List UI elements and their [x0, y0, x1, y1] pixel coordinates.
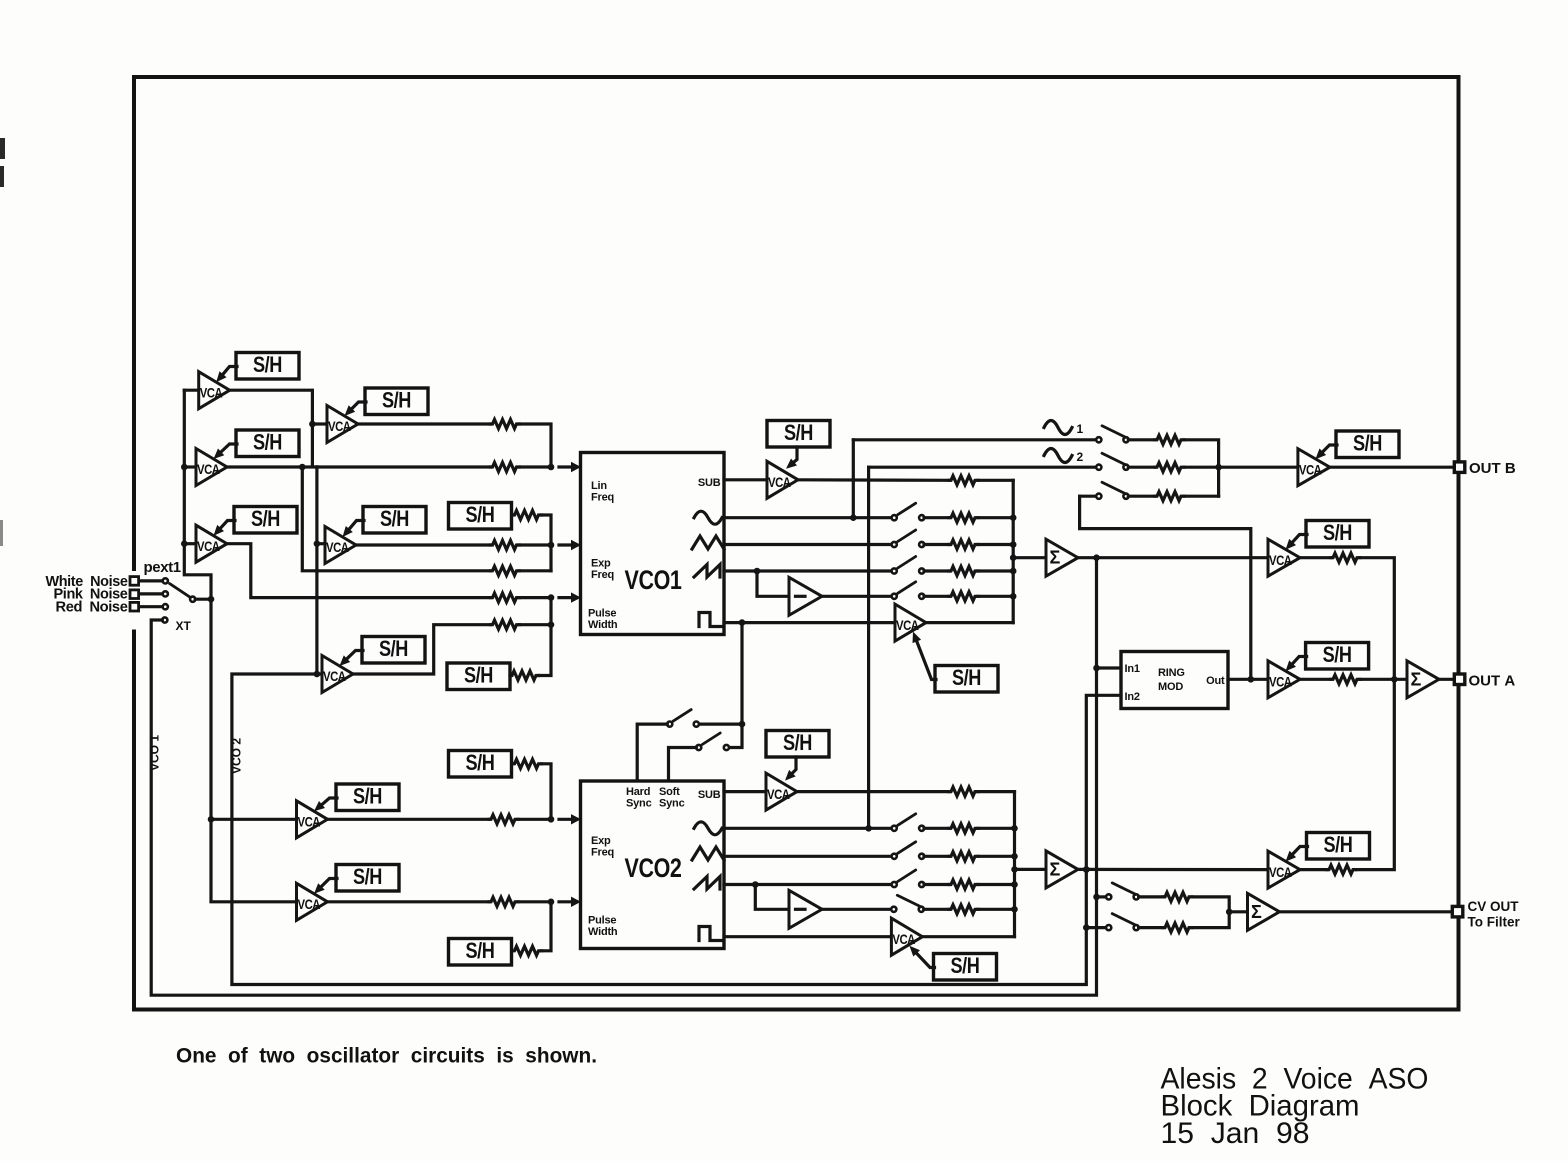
junction mix2 row / In2 column [1083, 866, 1090, 873]
resistor R11 [949, 540, 978, 549]
svg-text:S/H: S/H [464, 663, 493, 688]
svg-text:Width: Width [588, 926, 618, 938]
VCA U2 (noise) [196, 449, 227, 486]
svg-text:Freq: Freq [591, 492, 614, 504]
svg-text:Exp: Exp [591, 835, 611, 847]
wire U11 to R14 [1300, 556, 1331, 559]
S/H box S10 (for U9) [935, 665, 998, 692]
stub noise bus to VCA U2 input [184, 465, 196, 468]
S/H box S15 (VCO2 exp aux) [449, 750, 512, 777]
switch CV row1 [1106, 883, 1139, 900]
svg-text:2: 2 [1077, 450, 1084, 464]
wire sine1 row [853, 438, 1096, 441]
wire switch to R13 [924, 595, 949, 598]
wire VCO2 triangle row [724, 855, 892, 858]
stub CV node to sigma U22 [1229, 910, 1247, 913]
svg-text:S/H: S/H [253, 352, 282, 377]
svg-text:VCA: VCA [767, 786, 790, 802]
junction mix row / In1 column [1093, 554, 1100, 561]
S/H box S13 (for U13) [1306, 642, 1369, 669]
svg-text:Exp: Exp [591, 558, 611, 570]
S/H box S18 (for U16) [766, 730, 829, 757]
scan edge marks [0, 138, 5, 546]
resistor R22 (after S17) [513, 946, 542, 955]
control arrow S13 to U13 [1286, 657, 1307, 672]
svg-text:In1: In1 [1125, 663, 1140, 675]
svg-text:VCA: VCA [1299, 461, 1322, 477]
wire R25 to collector [978, 855, 1015, 858]
wire switch to R27 [924, 908, 949, 911]
svg-text:VCA: VCA [323, 668, 346, 684]
S/H box S1 (for U1) [236, 352, 299, 379]
svg-text:VCA: VCA [768, 474, 791, 490]
svg-text:15 Jan 98: 15 Jan 98 [1161, 1117, 1310, 1150]
junction bus / VCO2 exp VCA row [208, 816, 215, 823]
summing amp U17 (OUT A) [1407, 661, 1439, 698]
selector common contact [190, 597, 195, 602]
svg-text:pext1: pext1 [144, 559, 181, 576]
junction pulse row / sync branch [739, 619, 746, 626]
VCA U11 (VCO1 mix level) [1268, 539, 1300, 576]
junction collector/saw [1010, 568, 1017, 575]
VCO1 pulse output symbol [699, 613, 721, 627]
sine 1 symbol [1044, 421, 1072, 435]
resistor R3 (exp freq row) [491, 541, 520, 550]
VCO2 triangle output symbol [692, 847, 724, 860]
RING MOD block [1121, 652, 1228, 709]
wire R27 to collector [978, 908, 1015, 911]
svg-text:Width: Width [588, 619, 618, 631]
riser sine row up to sine1 select row [852, 440, 855, 518]
control arrow S19 to U19 [909, 946, 934, 968]
wire U4 output to Lin node [358, 422, 491, 425]
wire R18 to sigma U17 [1360, 678, 1407, 681]
wire switch to R26 [924, 883, 949, 886]
S/H box S14 (for U14) [336, 784, 399, 811]
VCA U5 (col2 mid) [325, 527, 356, 564]
switch hard sync [667, 710, 699, 727]
VCA U13 (ring mod level) [1268, 661, 1300, 698]
control arrow S2 to U2 [214, 444, 238, 459]
switch triangle row (VCO2 bank) [892, 842, 925, 859]
svg-text:S/H: S/H [1353, 430, 1382, 455]
arrow into VCO1 Pulse Width [559, 592, 581, 602]
svg-text:OUT B: OUT B [1469, 460, 1516, 477]
wire R3 to Exp node [520, 543, 552, 546]
control arrow S3 to U3 [214, 521, 236, 536]
svg-text:CV OUT: CV OUT [1468, 899, 1520, 914]
arrow into VCO1 Lin Freq [559, 462, 581, 472]
wire R15 to OUT B collector [1184, 440, 1219, 496]
White Noise input terminal [130, 577, 139, 586]
wire switch to R24 [924, 827, 949, 830]
collector vertical (VCO1 bank) [1012, 480, 1015, 622]
S/H box S5 (for U5) [363, 506, 426, 533]
junction node U6 input / VCO2 net [314, 671, 321, 678]
control arrow S16 to U15 [314, 879, 337, 894]
control arrow S1 to U1 [216, 367, 237, 383]
resistor R16 [1155, 463, 1184, 472]
wire Red Noise to selector contact [140, 605, 163, 608]
S/H box S4 (for U4) [365, 387, 428, 414]
VCA U12 (OUT B level) [1298, 449, 1330, 486]
stub to VCA U6 input [317, 672, 322, 675]
resistor R30 [1163, 923, 1192, 932]
junction bus/U2 input [181, 464, 188, 471]
wire VCO2 SUB to VCA U16 [724, 790, 766, 793]
wire U12 to OUT B terminal [1330, 466, 1455, 469]
wire R22 up to pw node [542, 902, 552, 951]
junction collector/sine [1010, 514, 1017, 521]
svg-text:VCA: VCA [197, 461, 220, 477]
inverter U18 (VCO2 saw) [789, 890, 822, 928]
wire R11 to collector [978, 543, 1013, 546]
wire ring mod Out to VCA U13 [1228, 678, 1268, 681]
S/H box S3 (for U3) [234, 506, 297, 533]
outer border frame of schematic sheet [134, 77, 1459, 1010]
resistor R7 (PW aux row) [491, 620, 520, 629]
wire R6 to PW node [520, 596, 552, 599]
wire VCO1 saw row [724, 569, 892, 572]
S/H box S12 (for U11) [1306, 520, 1369, 547]
collector vertical (VCO2 bank) [1013, 792, 1016, 937]
wire switch to R12 [924, 569, 949, 572]
wire hard sync into VCO2 [637, 724, 667, 781]
stub collector to sigma U10 [1013, 556, 1046, 559]
S/H box S16 (for U15) [336, 864, 399, 891]
wire VCO2 pulse row to VCA U19 [724, 935, 891, 938]
stub noise bus to VCA U3 input [184, 542, 196, 545]
resistor R14 (after U11) [1331, 553, 1360, 562]
junction Exp Freq node [548, 542, 555, 549]
svg-text:VCA: VCA [1269, 674, 1292, 690]
stub noise bus to VCA U1 input [184, 389, 198, 392]
riser sine2 down to VCO2 sine row [867, 467, 870, 828]
selector arm pext1 (on White Noise) [170, 584, 191, 598]
svg-text:VCO 1: VCO 1 [148, 735, 162, 771]
wire sine2 row [869, 466, 1097, 469]
resistor R8 (after S8) [510, 671, 539, 680]
VCO1 sine output symbol [694, 511, 722, 524]
wire switch to R11 [924, 543, 949, 546]
svg-text:Sync: Sync [659, 798, 685, 810]
wire inverter U8 out row [822, 595, 892, 598]
junction In1 column / CV row1 [1093, 894, 1100, 901]
junction OUT A summing node [1391, 676, 1398, 683]
wire sigma U20 out to VCA U21 [1078, 868, 1268, 871]
junction In2 column / mix2 row [1083, 866, 1090, 873]
stub bus to VCA U14 input [211, 818, 297, 821]
svg-text:VCA: VCA [298, 896, 321, 912]
wire R13 to collector [978, 595, 1013, 598]
svg-text:VCA: VCA [1269, 552, 1292, 568]
noise bus vertical to VCA inputs and VCO2 exp VCAs [184, 390, 296, 902]
svg-text:SUB: SUB [698, 477, 721, 489]
S/H box S7 (for U6) [362, 636, 425, 663]
svg-text:OUT A: OUT A [1469, 672, 1516, 689]
wire U1 output down to Lin row [230, 390, 313, 467]
wire R9 to collector corner [978, 479, 1013, 482]
junction collector2/sine [1011, 825, 1018, 832]
wire U17 to OUT A terminal [1439, 678, 1454, 681]
arrow into VCO2 Pulse Width [559, 897, 581, 907]
summing amp U10 (VCO1 mix) [1046, 539, 1078, 576]
VCO2 saw output symbol [694, 877, 720, 890]
control arrow S7 to U6 [340, 651, 364, 667]
S/H box S9 (for U7) [767, 420, 830, 447]
switch ring mod to OUT B [1096, 482, 1128, 499]
junction collector/triangle [1010, 541, 1017, 548]
svg-text:S/H: S/H [353, 784, 382, 809]
svg-text:VCO1: VCO1 [625, 565, 682, 595]
wire R24 to collector [978, 827, 1015, 830]
resistor R1 (U4 row) [491, 420, 520, 429]
svg-text:VCA: VCA [896, 617, 919, 633]
resistor R4 (after S6) [513, 511, 542, 520]
VCA U21 (VCO2 mix level) [1268, 851, 1300, 888]
VCO1 saw output symbol [694, 565, 720, 578]
contact Red Noise [163, 604, 168, 609]
vertical tap Lin row down to U6 input node [315, 467, 318, 674]
VCA U4 (col2 top) [327, 406, 358, 443]
VCA U3 (noise) [196, 525, 227, 562]
svg-text:S/H: S/H [466, 750, 495, 775]
svg-text:SUB: SUB [698, 789, 721, 801]
wire switch to R15 [1128, 438, 1155, 441]
svg-text:XT: XT [176, 619, 192, 633]
switch saw row (VCO2 bank) [892, 870, 925, 887]
S/H box S6 (lin/exp aux) [449, 502, 512, 529]
wire VCO2 sine row [724, 827, 892, 830]
svg-text:Lin: Lin [591, 480, 607, 492]
Pink Noise input terminal [130, 590, 139, 599]
svg-text:In2: In2 [1125, 691, 1140, 703]
wire U14 out row [328, 818, 490, 821]
svg-text:RING: RING [1158, 667, 1185, 679]
svg-text:S/H: S/H [952, 665, 981, 690]
wire R20 down to exp node [542, 764, 552, 820]
svg-text:S/H: S/H [251, 506, 280, 531]
switch sine row (VCO2 bank) [892, 814, 925, 831]
wire U13 to R18 [1300, 678, 1331, 681]
wire VCO1 pulse row to VCA U9 [724, 621, 895, 624]
VCA U7 (VCO1 sub) [767, 461, 798, 498]
resistor R28 (after U21) [1327, 865, 1356, 874]
svg-text:S/H: S/H [466, 938, 495, 963]
resistor R19 (VCO2 exp row) [489, 815, 518, 824]
wire hard sync switch to tee [699, 722, 742, 725]
wire R5 up to Exp node [520, 569, 552, 572]
S/H box S2 (for U2) [236, 429, 299, 456]
CV OUT terminal [1452, 906, 1463, 917]
wire R10 to collector [978, 516, 1013, 519]
wire VCO1 triangle row [724, 543, 892, 546]
wire R8 up to PW aux node [539, 625, 551, 676]
stub to ring mod In1 [1097, 666, 1122, 669]
wire soft sync into VCO2 [669, 748, 697, 782]
wire CV row2 to switch [1086, 926, 1106, 929]
wire U9 output to collector bottom [926, 621, 1013, 624]
wire R30 to CV collector [1192, 912, 1229, 928]
junction tap / U5 input [314, 540, 321, 547]
arrow into VCO1 Exp Freq [559, 540, 581, 550]
resistor R15 [1155, 435, 1184, 444]
wire U15 out row [328, 900, 490, 903]
svg-text:One of two oscillator circ: One of two oscillator circuits is shown. [176, 1045, 597, 1068]
stub collector2 to sigma U20 [1015, 868, 1047, 871]
junction noise bus / selector [208, 596, 215, 603]
wire R17 to OUT B collector [1184, 495, 1219, 498]
wire U5 output row to Exp node [356, 543, 491, 546]
wire VCO1 SUB to VCA U7 [724, 478, 767, 481]
svg-text:Pulse: Pulse [588, 608, 616, 620]
svg-text:VCA: VCA [892, 931, 915, 947]
svg-text:VCA: VCA [326, 539, 349, 555]
switch sine row (VCO1 bank) [892, 503, 925, 520]
resistor R17 [1155, 492, 1184, 501]
svg-text:S/H: S/H [353, 864, 382, 889]
control arrow S12 to U11 [1286, 535, 1308, 550]
resistor R27 [949, 905, 978, 914]
junction saw row / inverter branch [754, 568, 761, 575]
svg-text:MOD: MOD [1158, 681, 1183, 693]
wire Pink Noise to selector contact [140, 592, 163, 595]
stub to VCA U5 input [317, 542, 325, 545]
svg-text:VCO2: VCO2 [625, 853, 682, 883]
wire R19 to exp node [518, 818, 551, 821]
resistor R5 (exp aux row) [491, 566, 520, 575]
wire R14 down to OUT A node [1360, 558, 1394, 680]
svg-text:S/H: S/H [379, 636, 408, 661]
wire U22 to CV OUT terminal [1280, 910, 1453, 913]
control arrow S4 to U4 [345, 402, 367, 416]
junction VCO2 PW node [548, 899, 555, 906]
summing amp U22 (CV OUT) [1248, 893, 1280, 930]
resistor R20 (after S15) [513, 759, 542, 768]
control arrow S14 to U14 [314, 798, 337, 811]
resistor R2 (lin freq row) [491, 463, 520, 472]
resistor R9 (sub row) [949, 476, 978, 485]
junction collector / sigma stub [1010, 554, 1017, 561]
S/H box S11 (for U12) [1336, 430, 1399, 457]
junction Out / OUT B tap [1248, 676, 1255, 683]
wire U7 output to bank [798, 478, 949, 482]
svg-text:Σ: Σ [1251, 902, 1262, 922]
switch inverted saw row (VCO2 bank) [891, 895, 924, 912]
switch inverted saw row (VCO1 bank) [892, 582, 925, 599]
VCA U9 (VCO1 pulse) [895, 604, 926, 641]
wire R2 to Lin node [520, 465, 552, 468]
VCA U19 (VCO2 pulse) [891, 918, 922, 955]
sine 2 symbol [1044, 449, 1072, 463]
wire U21 to R28 [1300, 868, 1327, 871]
wire switch to R17 [1128, 495, 1155, 498]
svg-text:VCA: VCA [197, 538, 220, 554]
switch sine2 [1096, 453, 1128, 470]
svg-text:S/H: S/H [380, 506, 409, 531]
switch saw row (VCO1 bank) [892, 557, 925, 574]
switch triangle row (VCO1 bank) [892, 530, 925, 547]
svg-text:VCA: VCA [200, 384, 223, 400]
svg-text:S/H: S/H [382, 387, 411, 412]
wire U6 output up to PW aux row [353, 625, 491, 674]
wire ring mod tap row [1080, 495, 1097, 498]
wire U19 output to collector bottom [922, 935, 1014, 938]
wire U2 output row to Lin Freq [227, 465, 491, 468]
resistor R24 [949, 824, 978, 833]
junction In2 column / CV row2 [1083, 924, 1090, 931]
svg-text:Pulse: Pulse [588, 915, 616, 927]
svg-text:Sync: Sync [626, 798, 652, 810]
svg-text:To Filter: To Filter [1468, 915, 1521, 930]
inverter U8 (VCO1 saw) [789, 577, 822, 615]
S/H box S19 (for U19) [934, 953, 997, 980]
contact Pink Noise [163, 591, 168, 596]
junction OUT B node [1215, 464, 1222, 471]
resistor R13 [949, 592, 978, 601]
svg-text:Freq: Freq [591, 847, 614, 859]
svg-text:Soft: Soft [659, 786, 680, 798]
svg-text:VCA: VCA [1269, 864, 1292, 880]
junction PW aux node [548, 621, 555, 628]
net VCO2: from U6 node down, along bottom, up to ring-mod In2 [232, 674, 1121, 985]
svg-text:S/H: S/H [253, 429, 282, 454]
VCA U15 (VCO2 pw) [297, 883, 328, 920]
wire VCO2 saw row [724, 883, 892, 886]
VCO1 oscillator block [581, 453, 725, 635]
wire switch to R29 [1139, 895, 1163, 898]
control arrow S18 to U16 [785, 757, 796, 781]
wire U16 output to bank [797, 790, 949, 793]
wire switch to R10 [924, 516, 949, 519]
contact XT [162, 617, 167, 622]
wire U3 output down to PW row [227, 544, 491, 598]
junction bus/U3 input [181, 540, 188, 547]
junction saw2 / inverter branch [752, 881, 759, 888]
OUT A terminal [1454, 674, 1465, 685]
resistor R10 [949, 513, 978, 522]
S/H box S17 (VCO2 pw aux) [449, 938, 512, 965]
S/H box S8 (PW aux) [447, 663, 510, 690]
VCA U14 (VCO2 exp) [297, 801, 328, 838]
wire selector common to noise bus [195, 598, 211, 601]
wire VCO1 sine row [724, 516, 892, 519]
switch soft sync [696, 733, 729, 750]
svg-text:S/H: S/H [1323, 642, 1352, 667]
svg-text:S/H: S/H [466, 502, 495, 527]
svg-text:VCA: VCA [328, 418, 351, 434]
wire R12 to collector [978, 569, 1013, 572]
wire R23 to collector corner [978, 790, 1015, 793]
riser PW aux to PW node [549, 598, 552, 625]
svg-text:Hard: Hard [626, 786, 650, 798]
junction collector/invsaw [1010, 593, 1017, 600]
wire OUT B node to VCA U12 [1219, 466, 1298, 469]
branch saw2 down to inverter U18 [755, 885, 789, 910]
wire R4 down to Exp node [542, 515, 552, 571]
resistor R18 (after U13) [1331, 675, 1360, 684]
net VCO1: XT down, along bottom, up to ring-mod In1 column [151, 558, 1096, 996]
svg-text:Out: Out [1206, 675, 1225, 687]
resistor R21 (VCO2 pw row) [489, 897, 518, 906]
wire R29 to CV collector [1192, 897, 1229, 912]
junction sync tee [739, 721, 746, 728]
resistor R29 [1163, 892, 1192, 901]
VCO2 oscillator block [581, 781, 725, 949]
svg-text:VCA: VCA [298, 814, 321, 830]
junction In1 column / stub [1093, 665, 1100, 672]
svg-text:S/H: S/H [783, 730, 812, 755]
